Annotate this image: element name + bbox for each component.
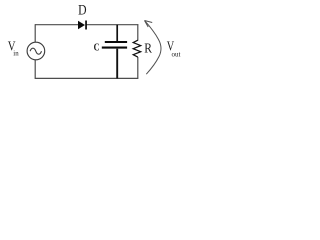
AC source sine wave <box>30 48 41 54</box>
AC source V1 circle <box>27 42 45 60</box>
capacitor C top plate <box>105 41 127 43</box>
diode D triangle (anode) <box>78 21 85 29</box>
svg-text:in: in <box>13 49 19 57</box>
resistor R zigzag <box>133 40 141 57</box>
capacitor C bottom plate <box>102 47 127 49</box>
wire right lower (resistor to bottom) <box>137 57 139 79</box>
capacitor C top lead <box>116 25 118 41</box>
Vout arrowhead <box>145 21 153 28</box>
Vout arc arrow shaft <box>145 21 161 75</box>
wire top from source to diode <box>35 24 79 26</box>
wire right upper (corner to resistor) <box>137 24 139 40</box>
wire bottom <box>35 77 139 79</box>
capacitor C bottom lead <box>116 49 118 79</box>
svg-text:out: out <box>172 49 181 58</box>
svg-text:C: C <box>94 42 100 53</box>
svg-text:R: R <box>144 41 152 56</box>
diode D cathode bar <box>85 21 87 30</box>
wire left upper <box>34 24 36 42</box>
wire top from diode to right corner <box>87 24 139 26</box>
svg-text:D: D <box>78 1 87 18</box>
wire left lower <box>34 60 36 79</box>
